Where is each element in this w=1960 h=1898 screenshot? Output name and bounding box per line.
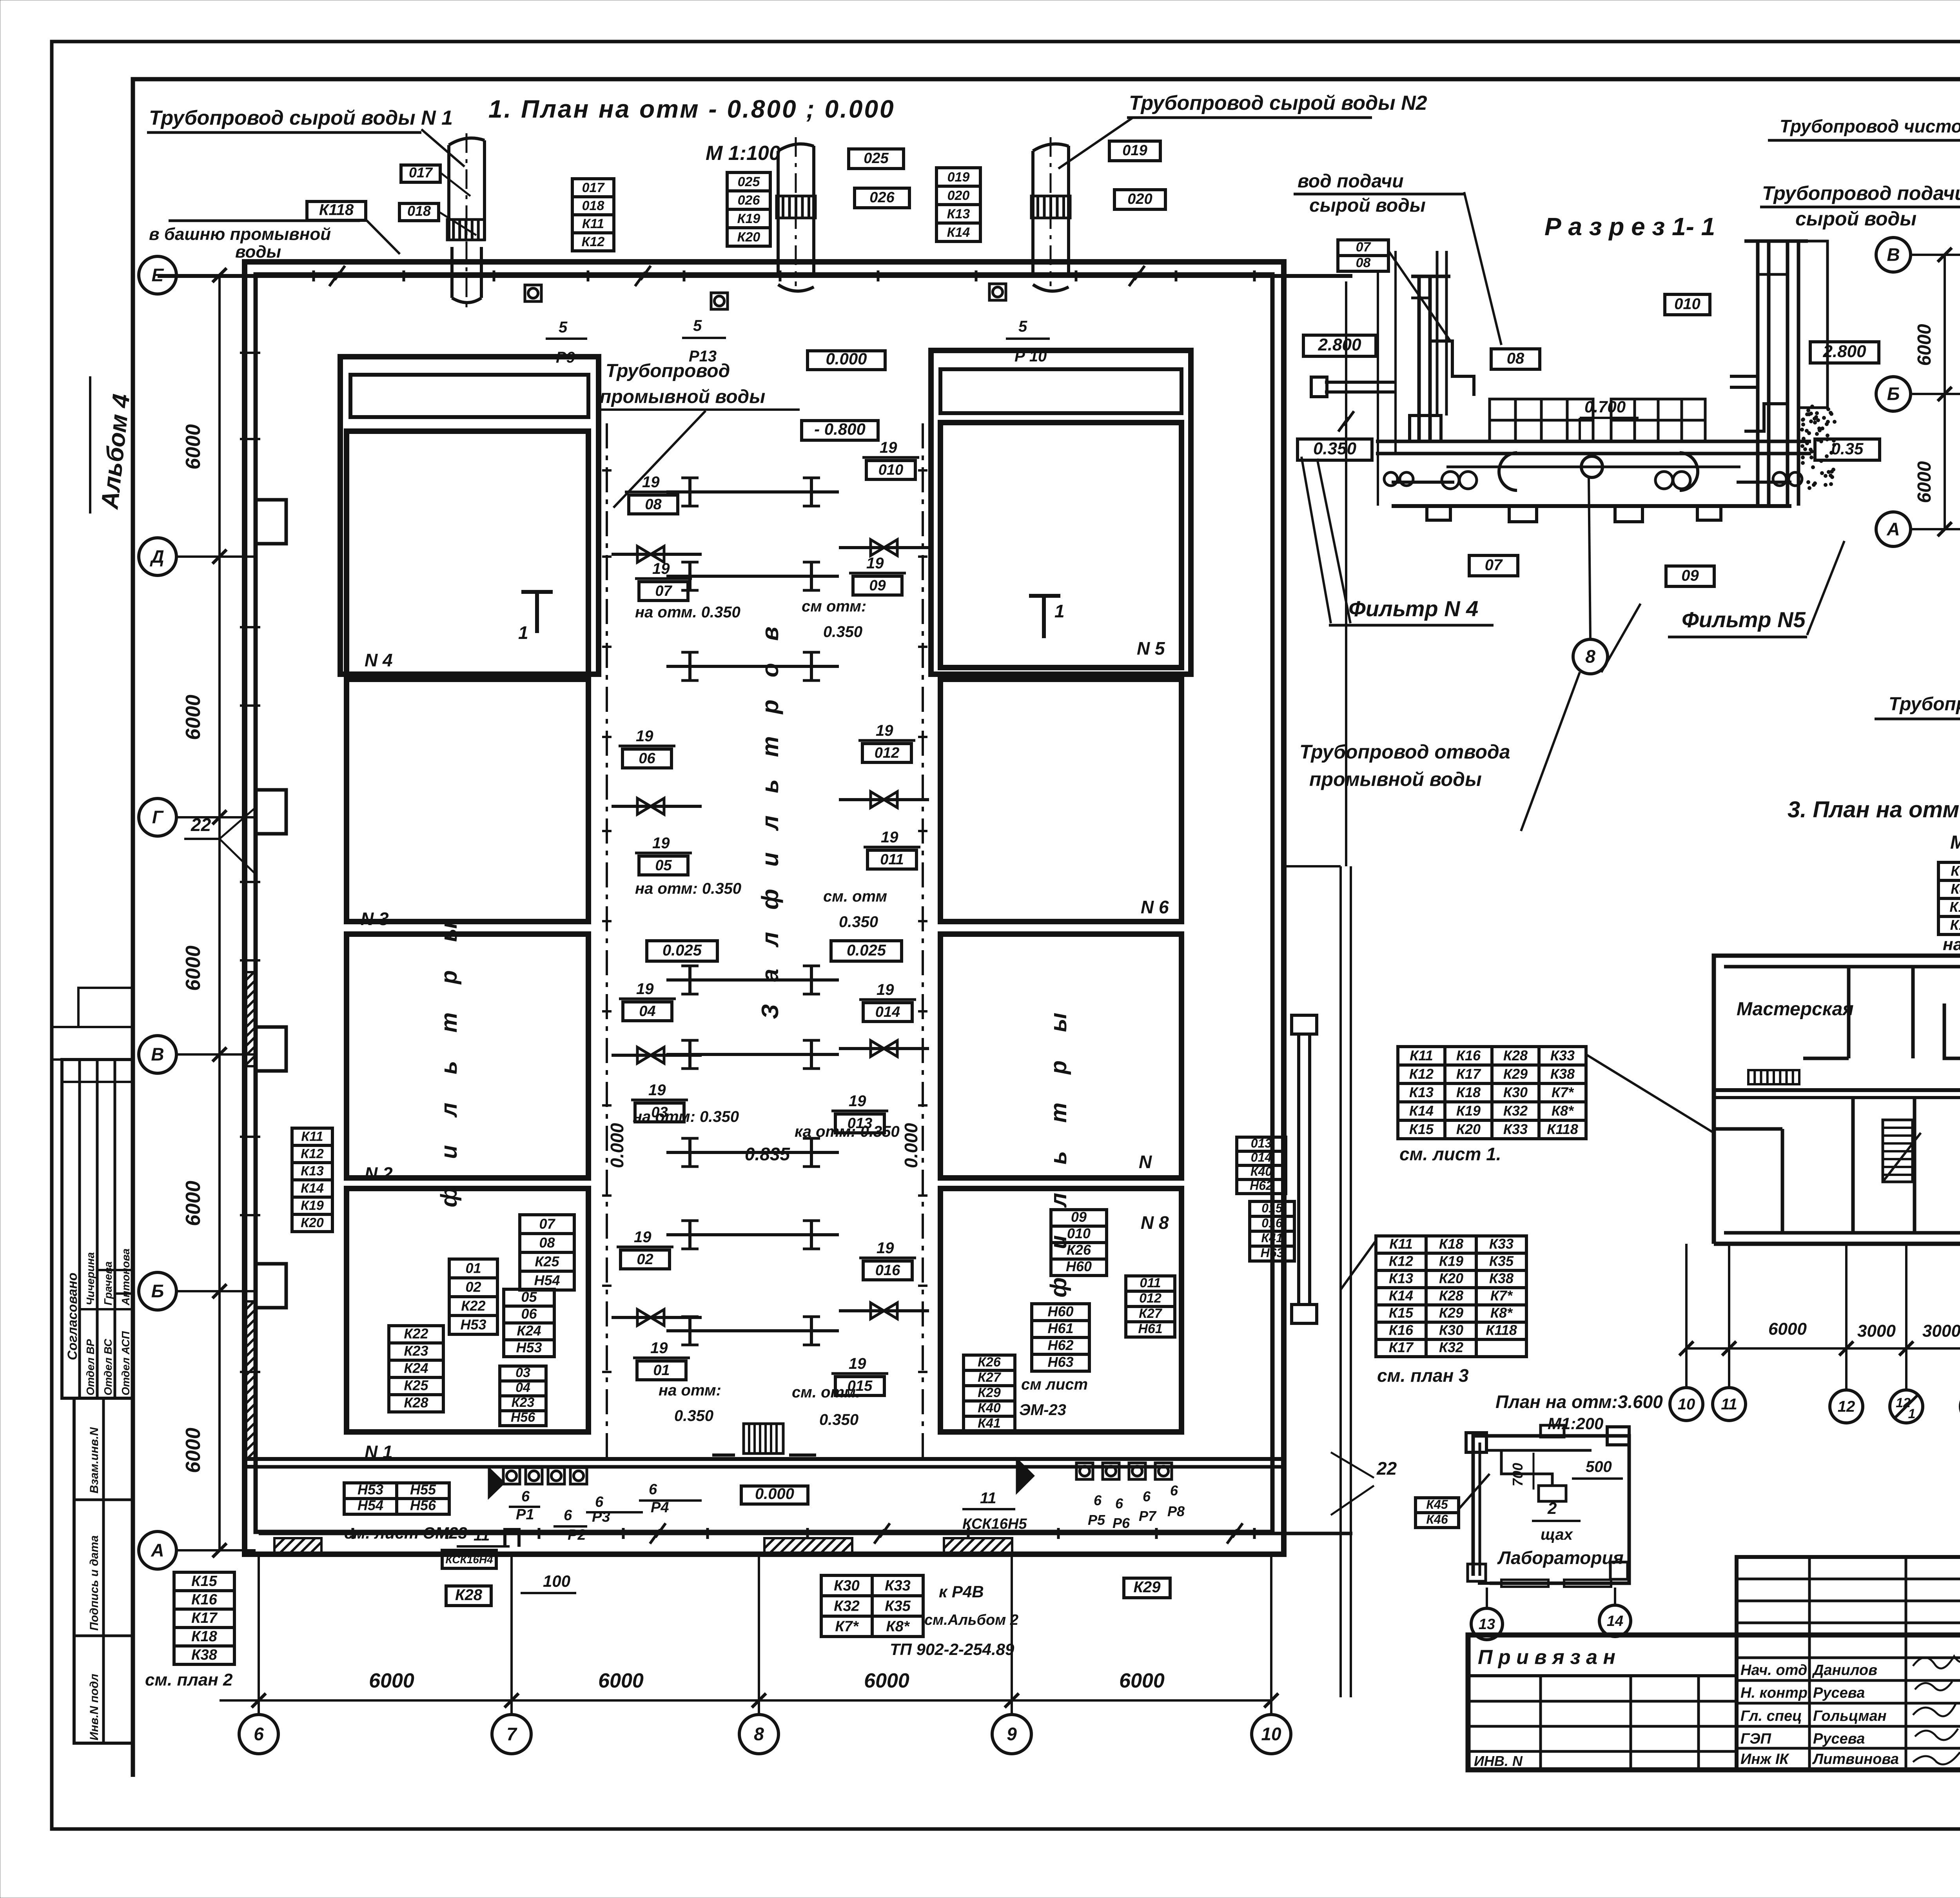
svg-text:К45: К45	[1426, 1497, 1448, 1512]
svg-text:ТП 902-2-254.89: ТП 902-2-254.89	[890, 1640, 1014, 1658]
svg-text:промывной воды: промывной воды	[600, 386, 765, 407]
lab circles	[1471, 1608, 1503, 1640]
svg-text:6000: 6000	[182, 1428, 205, 1473]
svg-text:см. лист 1.: см. лист 1.	[1399, 1144, 1501, 1164]
svg-text:8: 8	[754, 1724, 764, 1744]
svg-text:К46: К46	[1426, 1512, 1448, 1526]
svg-text:Согласовано: Согласовано	[65, 1272, 80, 1360]
svg-text:010: 010	[878, 462, 903, 478]
pipe clamp P2	[505, 1530, 519, 1547]
svg-text:09: 09	[1681, 567, 1699, 584]
svg-text:КСК16Н4: КСК16Н4	[445, 1553, 493, 1566]
section floors	[1376, 440, 1811, 443]
svg-text:Антонова: Антонова	[120, 1248, 132, 1306]
table 09-H60	[1051, 1209, 1107, 1276]
svg-text:В: В	[151, 1044, 164, 1065]
K45 box	[1416, 1497, 1459, 1528]
svg-text:016: 016	[875, 1262, 900, 1279]
svg-text:см. отм: см. отм	[823, 888, 887, 905]
svg-text:Русева: Русева	[1813, 1731, 1865, 1747]
svg-text:018: 018	[407, 203, 431, 219]
right filter block top band	[931, 350, 1191, 674]
plan2 axis В	[1876, 238, 1911, 272]
label 19/06	[619, 728, 675, 768]
svg-text:Р а з р е з 1- 1: Р а з р е з 1- 1	[1544, 212, 1715, 241]
svg-text:Р7: Р7	[1139, 1508, 1157, 1524]
svg-text:22: 22	[1376, 1458, 1397, 1479]
svg-text:19: 19	[877, 981, 894, 998]
svg-text:3000: 3000	[1922, 1321, 1960, 1341]
svg-text:К19: К19	[301, 1198, 324, 1213]
svg-text:19: 19	[634, 1228, 652, 1246]
svg-text:014: 014	[1251, 1150, 1272, 1165]
svg-text:К32: К32	[834, 1598, 860, 1614]
svg-text:Р8: Р8	[1167, 1503, 1185, 1519]
svg-text:см отм:: см отм:	[802, 598, 866, 615]
svg-text:К28: К28	[1503, 1047, 1528, 1063]
svg-text:025: 025	[864, 150, 889, 167]
table 03-H56	[500, 1365, 546, 1426]
svg-text:6000: 6000	[182, 945, 205, 991]
right filter cell N8	[940, 1189, 1181, 1432]
left K15 table	[174, 1572, 234, 1664]
svg-text:В: В	[1887, 245, 1900, 265]
svg-text:6: 6	[595, 1494, 604, 1510]
svg-text:017: 017	[582, 180, 605, 195]
svg-text:К27: К27	[978, 1370, 1002, 1385]
svg-text:2.800: 2.800	[1822, 342, 1866, 361]
svg-text:11: 11	[980, 1490, 996, 1507]
svg-text:Н54: Н54	[358, 1497, 383, 1513]
svg-text:01: 01	[653, 1362, 670, 1379]
wall pilasters left	[256, 500, 286, 544]
svg-text:07: 07	[1356, 240, 1372, 255]
svg-text:19: 19	[652, 835, 670, 852]
svg-text:Н56: Н56	[511, 1410, 535, 1425]
table 013-H62	[1237, 1136, 1286, 1194]
svg-text:сырой воды: сырой воды	[1309, 195, 1426, 216]
svg-text:02: 02	[637, 1251, 653, 1268]
svg-text:К30: К30	[834, 1577, 860, 1594]
svg-text:К13: К13	[947, 207, 970, 221]
svg-text:промывной воды: промывной воды	[1309, 768, 1482, 790]
svg-text:9: 9	[1007, 1724, 1017, 1744]
svg-text:19: 19	[876, 722, 893, 739]
svg-text:19: 19	[849, 1355, 866, 1372]
svg-text:К33: К33	[885, 1577, 911, 1594]
bottom wall hatches	[764, 1538, 852, 1555]
label 0.025 left	[647, 941, 717, 961]
svg-text:К38: К38	[1489, 1270, 1514, 1287]
label 19/012	[858, 722, 915, 762]
svg-text:N: N	[1139, 1152, 1152, 1172]
left filter block top band	[340, 357, 599, 674]
axis Б	[139, 1272, 176, 1310]
T1 mark left	[521, 592, 553, 633]
svg-text:К15: К15	[1409, 1121, 1434, 1137]
striped mark	[1748, 1070, 1799, 1084]
svg-text:0.000: 0.000	[607, 1123, 627, 1168]
axis line V	[1912, 254, 1960, 256]
svg-text:К15: К15	[191, 1573, 217, 1590]
svg-text:5: 5	[693, 317, 702, 334]
svg-text:К7*: К7*	[1951, 863, 1960, 879]
svg-text:на отм. 0.350: на отм. 0.350	[635, 604, 740, 621]
external pipe risers right	[1297, 1032, 1300, 1306]
plan2 vertical dim	[1944, 255, 1946, 529]
P1-P4 sensors	[503, 1468, 520, 1484]
table K22-K28	[389, 1326, 443, 1412]
svg-text:6: 6	[1094, 1492, 1102, 1508]
svg-text:К12: К12	[1389, 1253, 1413, 1269]
top pipe line	[158, 274, 1352, 278]
svg-text:19: 19	[648, 1081, 666, 1099]
svg-text:22: 22	[191, 815, 211, 835]
column circle 6	[239, 1715, 278, 1754]
K118 box	[307, 201, 366, 220]
svg-text:6000: 6000	[1914, 324, 1935, 366]
svg-text:К23: К23	[512, 1395, 535, 1410]
svg-text:13: 13	[1479, 1616, 1495, 1633]
svg-text:см. план 2: см. план 2	[145, 1670, 233, 1689]
svg-text:Литвинова: Литвинова	[1812, 1751, 1899, 1767]
circle 8	[1573, 639, 1608, 674]
axis А	[139, 1531, 176, 1569]
svg-text:Н54: Н54	[534, 1272, 560, 1288]
svg-text:6000: 6000	[598, 1669, 644, 1692]
svg-text:Отдел ВС: Отдел ВС	[102, 1339, 114, 1395]
svg-text:N 5: N 5	[1137, 638, 1165, 659]
svg-text:Трубопровод сырой воды N 1: Трубопровод сырой воды N 1	[149, 107, 453, 129]
svg-text:Гл. спец: Гл. спец	[1740, 1708, 1802, 1724]
svg-text:018: 018	[582, 198, 604, 213]
axis В	[139, 1036, 176, 1073]
svg-text:011: 011	[1140, 1276, 1161, 1290]
svg-text:19: 19	[652, 560, 670, 577]
svg-text:- 0.800: - 0.800	[814, 420, 866, 438]
svg-text:К14: К14	[947, 225, 970, 240]
svg-text:К13: К13	[1409, 1084, 1434, 1100]
svg-text:К118: К118	[1547, 1121, 1578, 1137]
svg-text:Н61: Н61	[1047, 1320, 1073, 1336]
svg-text:А: А	[1886, 519, 1900, 539]
svg-text:08: 08	[1507, 350, 1524, 367]
svg-text:19: 19	[880, 439, 897, 456]
svg-text:10: 10	[1261, 1724, 1281, 1744]
svg-text:08: 08	[539, 1235, 555, 1251]
svg-text:500: 500	[1586, 1458, 1612, 1475]
svg-text:М 1:200: М 1:200	[1950, 832, 1960, 853]
svg-text:Н62: Н62	[1250, 1179, 1273, 1193]
svg-text:Н. контр.: Н. контр.	[1740, 1685, 1812, 1701]
svg-text:К12: К12	[1409, 1066, 1434, 1082]
svg-text:Мастерская: Мастерская	[1737, 999, 1854, 1020]
svg-text:Фильтр N5: Фильтр N5	[1682, 607, 1806, 632]
tall approval table	[1737, 1557, 1960, 1770]
svg-text:Трубопровод: Трубопровод	[606, 361, 730, 381]
svg-text:6: 6	[1170, 1482, 1178, 1499]
plan3 mid wall	[1714, 1088, 1960, 1092]
svg-text:03: 03	[515, 1365, 530, 1380]
plan3 partitions top	[1847, 967, 1851, 1058]
svg-text:на отм: 0.350: на отм: 0.350	[633, 1108, 739, 1125]
svg-text:6000: 6000	[864, 1669, 909, 1692]
svg-text:К18: К18	[1439, 1236, 1463, 1252]
svg-text:к Р4В: к Р4В	[939, 1582, 984, 1601]
K30 table	[821, 1575, 923, 1637]
title block outer	[1468, 1635, 1960, 1770]
svg-text:Д: Д	[149, 546, 164, 567]
table B K11-K32	[1376, 1236, 1526, 1357]
svg-text:Трубопровод сырой воды N2: Трубопровод сырой воды N2	[1129, 92, 1427, 114]
tile band left	[1490, 399, 1705, 441]
concrete dots	[1800, 405, 1837, 490]
svg-text:К17: К17	[1456, 1066, 1481, 1082]
svg-text:1: 1	[1054, 601, 1065, 621]
svg-text:N 3: N 3	[361, 909, 389, 929]
svg-text:К18: К18	[1456, 1084, 1481, 1100]
svg-text:6: 6	[521, 1488, 530, 1505]
column circle 10	[1252, 1715, 1291, 1754]
svg-text:см. план 3: см. план 3	[1377, 1365, 1469, 1386]
svg-text:Р2: Р2	[568, 1527, 586, 1543]
label 19/015	[831, 1355, 888, 1395]
svg-text:Г: Г	[152, 807, 164, 827]
svg-text:6: 6	[1143, 1488, 1151, 1504]
svg-text:Отдел ВР: Отдел ВР	[84, 1339, 96, 1395]
riser pipe 2	[777, 144, 815, 274]
svg-text:воды: воды	[235, 242, 281, 261]
svg-text:К24: К24	[404, 1360, 428, 1376]
right filter cell N5	[940, 423, 1181, 668]
axis Д	[139, 538, 176, 575]
svg-text:К32: К32	[1439, 1339, 1463, 1355]
svg-text:02: 02	[465, 1279, 481, 1295]
label 19/04	[619, 980, 676, 1021]
svg-text:М1:200: М1:200	[1548, 1414, 1603, 1433]
svg-text:К41: К41	[1261, 1231, 1283, 1245]
corridor pipe stubs	[666, 478, 839, 506]
svg-text:К11: К11	[582, 216, 604, 231]
corridor valves left	[612, 553, 702, 556]
svg-text:1: 1	[518, 622, 528, 643]
svg-text:см. отм.: см. отм.	[792, 1384, 860, 1401]
table 019-K14	[936, 168, 980, 241]
signatures squiggles	[1913, 1656, 1960, 1764]
left filter cell N4	[347, 431, 588, 675]
svg-text:З а л ф и л ь т р о в: З а л ф и л ь т р о в	[757, 619, 783, 1019]
svg-text:05: 05	[655, 857, 672, 874]
svg-text:19: 19	[636, 728, 653, 745]
svg-text:К32: К32	[1503, 1103, 1528, 1119]
svg-text:К11: К11	[1410, 1047, 1433, 1063]
svg-text:012: 012	[1139, 1291, 1161, 1306]
table 025-K20	[727, 172, 770, 246]
svg-text:Н61: Н61	[1138, 1321, 1162, 1336]
label 19/02	[617, 1228, 673, 1269]
svg-text:3. План на отм: 0.000: 3. План на отм: 0.000	[1788, 797, 1960, 822]
svg-text:К16: К16	[1456, 1047, 1481, 1063]
svg-text:026: 026	[869, 189, 895, 206]
svg-text:План на отм:3.600: План на отм:3.600	[1495, 1392, 1663, 1412]
07/08 ref topleft	[1338, 240, 1388, 271]
svg-text:К26: К26	[1067, 1242, 1091, 1258]
svg-text:Инв.N подл: Инв.N подл	[88, 1674, 101, 1740]
plan3 column circle 11	[1713, 1388, 1746, 1421]
left wall hatch	[245, 1301, 256, 1466]
svg-text:К8*: К8*	[1552, 1103, 1574, 1119]
section right wall	[1730, 241, 1828, 506]
label 19/011	[864, 829, 920, 869]
label 19/016	[859, 1239, 916, 1280]
table 05-H53	[504, 1289, 554, 1357]
svg-text:на отм: 0.350: на отм: 0.350	[635, 880, 741, 897]
label 19/07	[635, 560, 692, 601]
svg-text:04: 04	[515, 1380, 530, 1395]
svg-text:09: 09	[1071, 1209, 1087, 1225]
svg-text:Инж IК: Инж IК	[1740, 1751, 1789, 1767]
svg-text:0.350: 0.350	[823, 623, 862, 641]
to wash tower note	[169, 220, 360, 222]
svg-text:Взам.инв.N: Взам.инв.N	[88, 1427, 101, 1493]
svg-text:К15: К15	[1389, 1305, 1414, 1321]
svg-text:19: 19	[881, 829, 898, 846]
svg-text:07: 07	[1485, 556, 1503, 573]
svg-text:К30: К30	[1439, 1322, 1463, 1338]
axis Е	[139, 256, 176, 294]
svg-text:07: 07	[539, 1216, 555, 1232]
svg-text:06: 06	[639, 750, 655, 767]
svg-text:6000: 6000	[1119, 1669, 1165, 1692]
svg-text:К33: К33	[1550, 1047, 1575, 1063]
svg-text:К16: К16	[1389, 1322, 1414, 1338]
svg-text:Р 10: Р 10	[1014, 348, 1047, 365]
svg-text:Гольцман: Гольцман	[1813, 1708, 1887, 1724]
svg-text:Б: Б	[151, 1281, 164, 1301]
svg-text:1. План на отм - 0.800 ; 0.00: 1. План на отм - 0.800 ; 0.000	[488, 95, 895, 123]
table H60-H63	[1032, 1303, 1089, 1371]
svg-text:Трубопровод подачи: Трубопровод подачи	[1762, 182, 1960, 204]
svg-text:Н60: Н60	[1047, 1303, 1073, 1319]
axis Г	[139, 798, 176, 836]
corridor axis dash lines	[606, 423, 608, 1467]
svg-text:11: 11	[474, 1527, 490, 1544]
svg-text:К118: К118	[319, 201, 354, 219]
svg-text:К22: К22	[461, 1298, 485, 1314]
svg-text:0.35: 0.35	[1831, 439, 1864, 458]
label -0.800	[802, 420, 878, 440]
svg-text:ГЭП: ГЭП	[1740, 1731, 1771, 1747]
svg-text:19: 19	[650, 1339, 668, 1357]
svg-text:6000: 6000	[369, 1669, 414, 1692]
svg-text:К22: К22	[404, 1326, 428, 1342]
svg-text:0.350: 0.350	[819, 1411, 858, 1428]
svg-text:щах: щах	[1541, 1526, 1573, 1543]
P5-P8 sensors	[1076, 1463, 1093, 1479]
svg-text:Б: Б	[1887, 384, 1900, 404]
svg-text:М 1:100: М 1:100	[706, 142, 780, 165]
svg-text:К28: К28	[404, 1395, 428, 1411]
svg-text:Р4: Р4	[651, 1499, 669, 1516]
svg-text:К40: К40	[978, 1401, 1001, 1415]
column circle 8	[739, 1715, 779, 1754]
section left pipes stubs	[1311, 377, 1396, 397]
svg-text:К14: К14	[301, 1181, 324, 1196]
svg-text:К11: К11	[301, 1129, 323, 1144]
svg-text:013: 013	[1251, 1136, 1272, 1150]
table K11-K20	[292, 1128, 332, 1232]
axis line B	[1912, 393, 1960, 395]
svg-text:Чичерина: Чичерина	[84, 1252, 96, 1305]
section left wall	[1396, 251, 1474, 455]
svg-text:N 1: N 1	[365, 1442, 393, 1462]
svg-text:010: 010	[1674, 295, 1700, 312]
label 19/013	[831, 1092, 888, 1133]
label 19/014	[859, 981, 916, 1022]
svg-text:К18: К18	[191, 1628, 217, 1645]
svg-text:в башню промывной: в башню промывной	[149, 225, 331, 244]
section level labels	[1303, 335, 1376, 356]
plan3 partitions bottom	[1851, 1098, 1855, 1233]
svg-text:Н53: Н53	[358, 1482, 383, 1498]
plan3 column circle 12/1	[1890, 1390, 1923, 1423]
svg-text:Р6: Р6	[1112, 1515, 1130, 1531]
svg-text:П р и в я з а н: П р и в я з а н	[1478, 1646, 1615, 1669]
svg-text:К29: К29	[1503, 1066, 1528, 1082]
svg-text:19: 19	[849, 1092, 866, 1110]
svg-text:см лист: см лист	[1021, 1376, 1088, 1393]
svg-text:К17: К17	[191, 1610, 218, 1626]
svg-text:К38: К38	[1550, 1066, 1575, 1082]
plan2 axis Б	[1876, 377, 1911, 411]
svg-text:Р9: Р9	[556, 349, 575, 366]
ticks corridor lines	[602, 469, 612, 472]
svg-text:026: 026	[738, 193, 760, 208]
svg-text:015: 015	[1261, 1201, 1283, 1215]
svg-text:К20: К20	[301, 1216, 324, 1230]
svg-text:12: 12	[1838, 1398, 1855, 1415]
svg-text:К12: К12	[301, 1147, 324, 1161]
svg-text:К29: К29	[978, 1385, 1001, 1400]
svg-text:09: 09	[869, 577, 886, 594]
svg-text:019: 019	[1122, 142, 1147, 159]
svg-text:А: А	[151, 1540, 164, 1560]
svg-text:К38: К38	[191, 1647, 217, 1663]
svg-text:0.000: 0.000	[755, 1485, 794, 1502]
ticks left wall	[240, 352, 260, 354]
svg-text:8: 8	[1585, 646, 1595, 667]
svg-text:10: 10	[1678, 1396, 1695, 1413]
svg-text:К28: К28	[455, 1586, 483, 1604]
svg-text:016: 016	[1261, 1216, 1283, 1230]
svg-text:Фильтр N 4: Фильтр N 4	[1348, 596, 1478, 621]
svg-text:012: 012	[875, 745, 899, 761]
svg-text:6000: 6000	[1914, 461, 1935, 503]
svg-text:2: 2	[1547, 1499, 1557, 1517]
svg-text:К7*: К7*	[1490, 1288, 1513, 1304]
svg-text:0.350: 0.350	[1313, 439, 1357, 458]
svg-text:0.700: 0.700	[1584, 397, 1626, 416]
svg-text:К13: К13	[1389, 1270, 1413, 1287]
label 19/03	[631, 1081, 688, 1122]
plan3 bottom dims	[1686, 1347, 1960, 1350]
plan2 axis А	[1876, 512, 1911, 546]
svg-text:6: 6	[649, 1481, 657, 1498]
svg-text:07: 07	[655, 583, 672, 599]
svg-text:01: 01	[465, 1260, 481, 1276]
table 07-H54	[520, 1215, 574, 1290]
column circle 7	[492, 1715, 531, 1754]
